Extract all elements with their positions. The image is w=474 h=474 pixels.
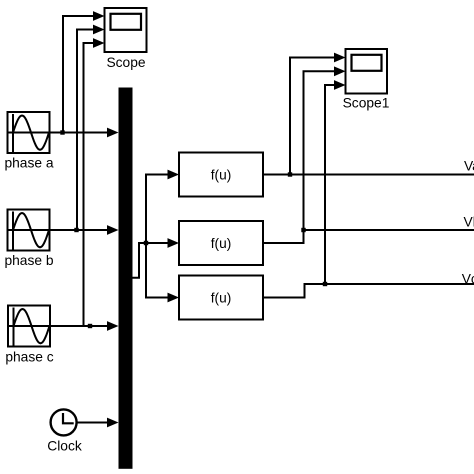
wire: branch down to Fcn F3 input: [146, 243, 168, 298]
wire: branch up to Scope1 input 2: [304, 71, 336, 230]
wire: phase c output to Mux input 3: [50, 325, 108, 327]
sine wave source block "phase a": [8, 112, 50, 153]
svg-text:Scope: Scope: [106, 55, 145, 70]
svg-text:f(u): f(u): [211, 168, 232, 183]
svg-text:Vca: Vca: [462, 272, 474, 287]
Mux block (vertical black bar): [119, 88, 133, 469]
svg-text:phase a: phase a: [4, 156, 53, 171]
svg-text:phase c: phase c: [5, 350, 53, 365]
wire: branch from phase a up to Scope input 1: [63, 16, 94, 133]
node: branch junction on F1 output: [288, 172, 292, 176]
wire: branch from phase b up to Scope input 2: [77, 30, 94, 231]
wire: branch up to Scope1 input 3: [325, 85, 335, 284]
scope block "Scope": [105, 8, 147, 52]
scope block "Scope1": [346, 49, 388, 94]
node: branch junction on Mux output: [144, 241, 148, 245]
Fcn block F2 "f(u)": [179, 221, 263, 265]
sine wave source block "phase b": [8, 210, 50, 251]
node: branch junction on F2 output: [301, 228, 305, 232]
wire: branch up to Scope1 input 1: [290, 58, 335, 175]
wire: Mux output trunk: [133, 243, 169, 278]
Fcn block F3 "f(u)": [179, 276, 263, 320]
node: branch junction on phase c wire: [88, 324, 92, 328]
sine wave source block "phase c": [8, 306, 50, 347]
wire: phase b output to Mux input 2: [50, 229, 109, 231]
svg-text:Vbc: Vbc: [464, 215, 474, 230]
node: branch junction on phase a wire: [60, 130, 64, 134]
svg-text:f(u): f(u): [211, 291, 232, 306]
node: branch junction on phase b wire: [74, 228, 78, 232]
wire: phase a output to Mux input 1: [50, 132, 109, 134]
wire: branch from phase c up to Scope input 3: [84, 43, 95, 326]
svg-text:Scope1: Scope1: [343, 96, 390, 111]
wire: F3 output to right edge (Vca): [263, 284, 474, 298]
Fcn block F1 "f(u)": [179, 153, 263, 197]
svg-text:Clock: Clock: [47, 439, 82, 454]
svg-text:f(u): f(u): [211, 236, 232, 251]
wire: F1 output to right edge (Vab): [263, 174, 474, 176]
svg-text:Vab: Vab: [464, 159, 474, 174]
wire: F2 output to right edge (Vbc): [263, 230, 474, 243]
wire: Clock output to Mux input 4: [77, 422, 108, 424]
svg-text:phase b: phase b: [4, 253, 53, 268]
wire: branch up to Fcn F1 input: [146, 175, 168, 244]
node: branch junction on F3 output: [323, 282, 327, 286]
Clock block: [51, 409, 77, 435]
